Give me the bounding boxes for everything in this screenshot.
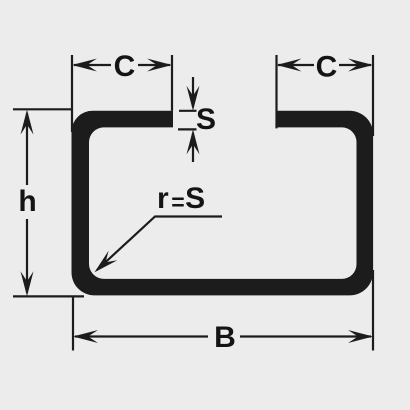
arrowhead: right C right (348, 59, 373, 72)
svg-text:B: B (214, 321, 236, 354)
arrowhead: B left (73, 330, 98, 343)
arrowhead: B right (348, 330, 373, 343)
wire: S bottom extension line (178, 128, 197, 130)
svg-text:C: C (114, 50, 136, 83)
svg-text:S: S (196, 103, 216, 136)
wire: right C extension line left (275, 55, 277, 128)
wire: B dimension line segments (75, 335, 371, 337)
arrowhead: h bottom (points down) (21, 271, 34, 296)
wire: right C dimension line segments (278, 64, 371, 66)
svg-text:h: h (18, 185, 36, 218)
wire: r=S leader line (97, 217, 222, 271)
arrowhead: h top (points up) (21, 110, 34, 135)
wire: B right extension line (372, 270, 374, 351)
wire: left C extension line right (171, 55, 173, 111)
wire: S top extension line (179, 110, 197, 112)
wire: B left extension line (72, 297, 74, 351)
svg-text:C: C (316, 51, 338, 84)
wire: h top extension line (13, 108, 72, 110)
wire: S bottom arrow shaft (192, 133, 194, 162)
wire: h bottom extension line (13, 295, 84, 297)
wire: S top arrow shaft (192, 77, 194, 107)
arrowhead: left C left (72, 59, 97, 72)
wire: left C extension line left (71, 55, 73, 132)
C-channel profile (72, 111, 374, 296)
arrowhead: S bottom (points up) (187, 129, 200, 154)
arrowhead: left C right (147, 59, 172, 72)
wire: right C extension line right (372, 55, 374, 136)
arrowhead: right C left (277, 59, 302, 72)
arrowhead: r=S leader (points down-left) (90, 251, 117, 277)
wire: left C dimension line segments (74, 64, 170, 66)
wire: h dimension line segments (26, 114, 28, 293)
arrowhead: S top (points down) (187, 86, 200, 111)
